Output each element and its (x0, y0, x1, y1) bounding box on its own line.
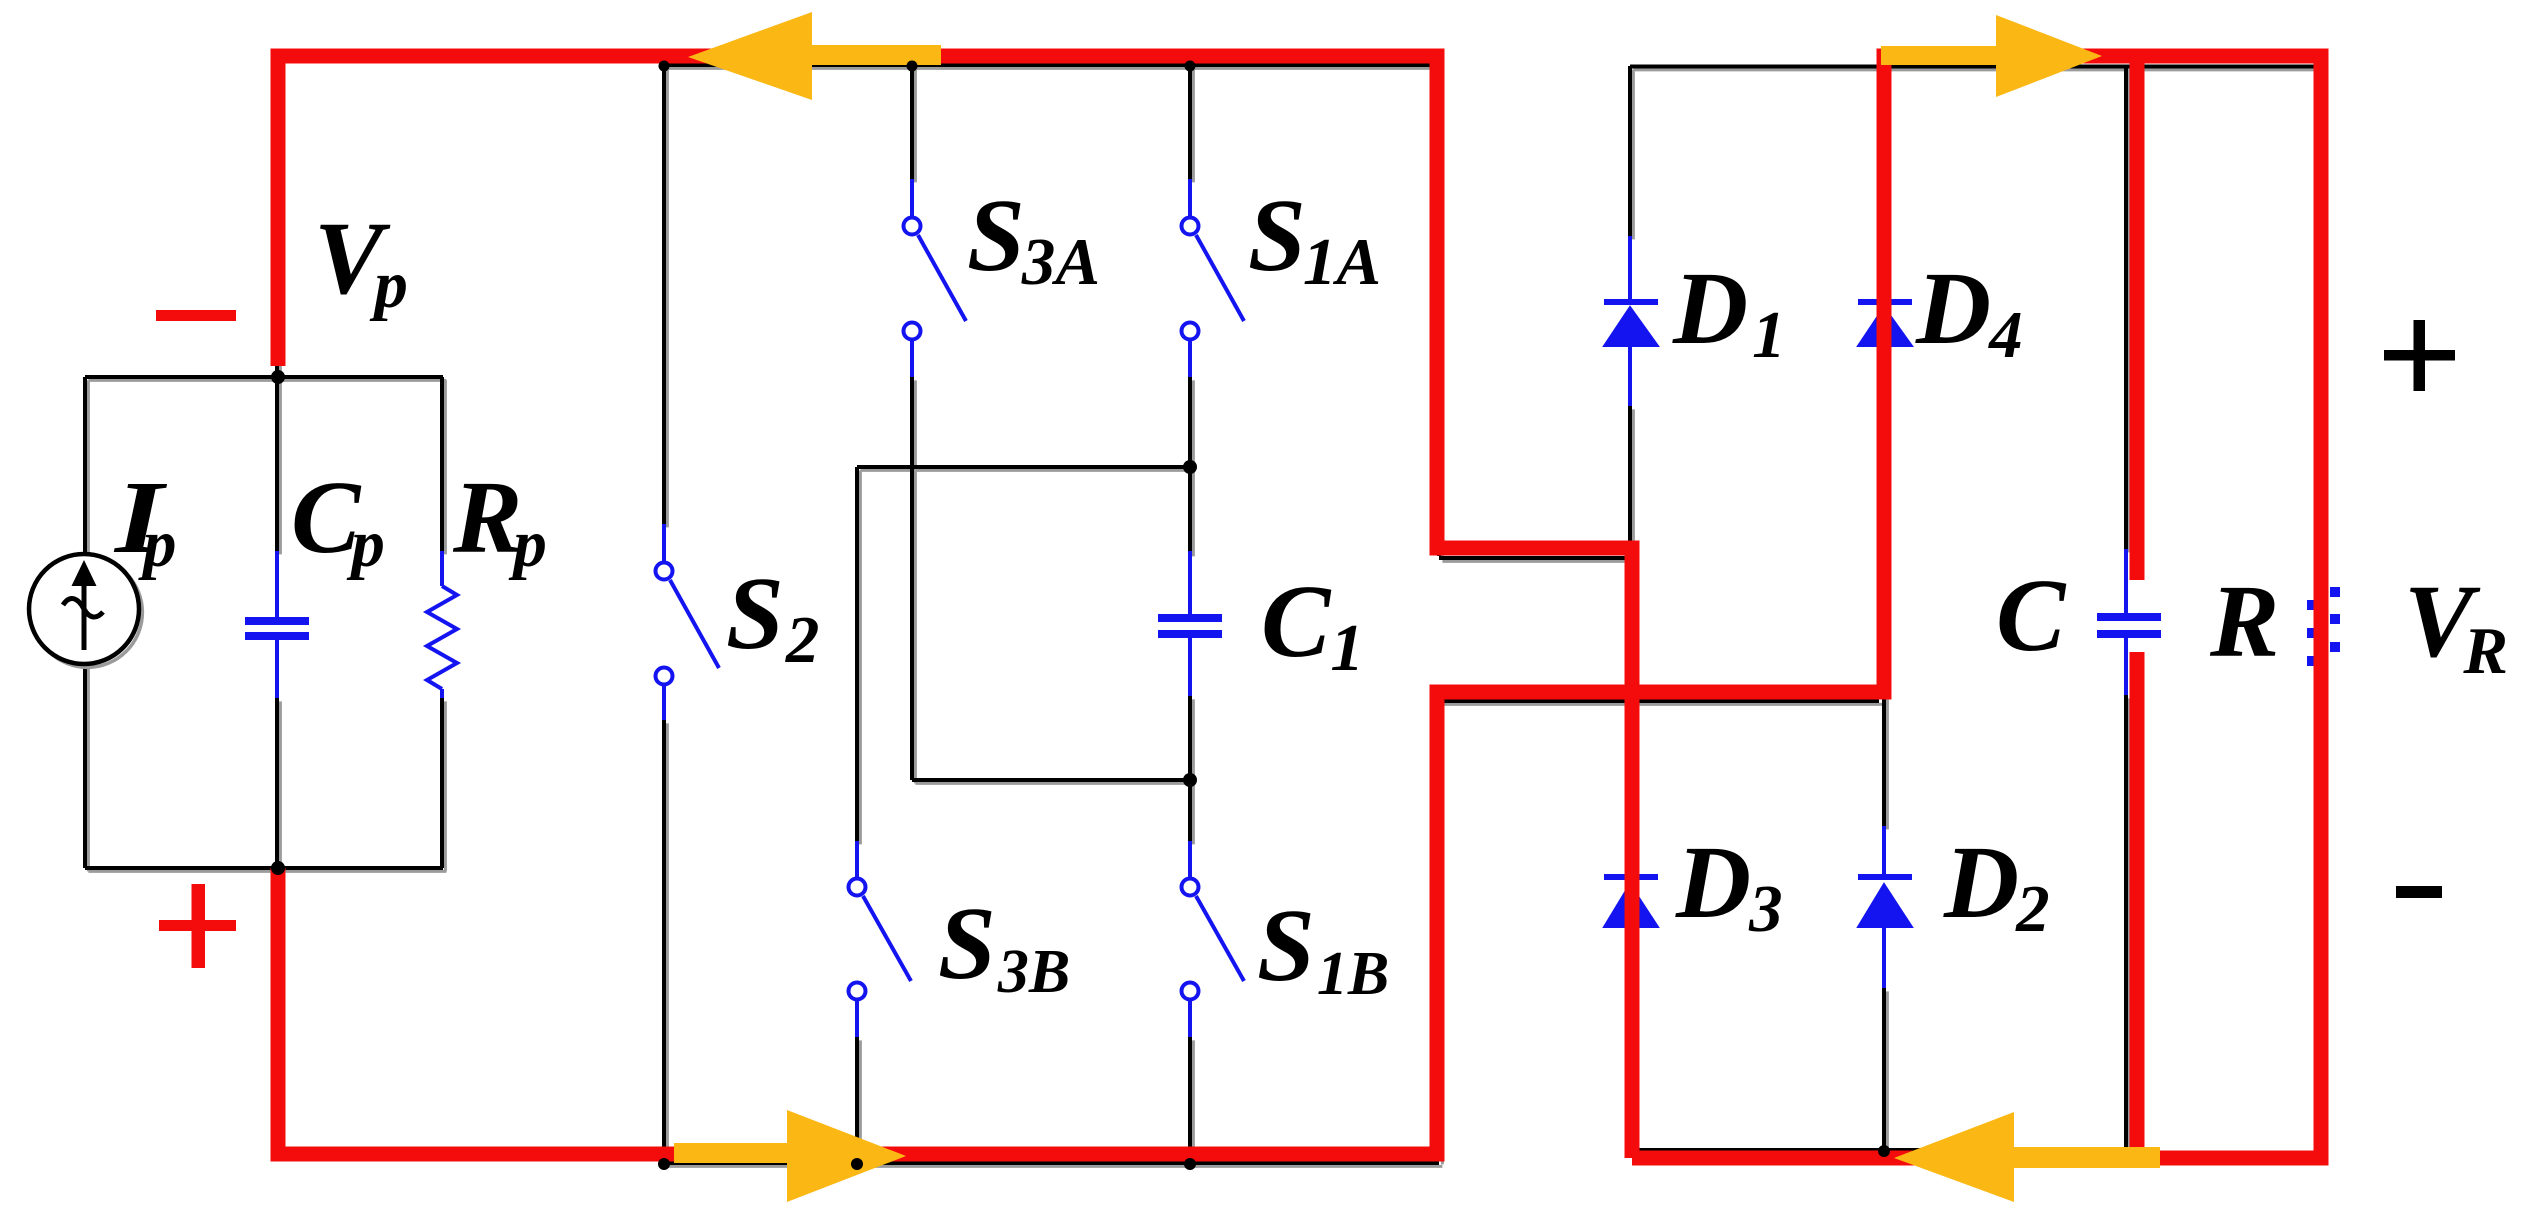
wire: S3B branch lower (855, 1037, 859, 1163)
capacitor Cp (245, 551, 309, 698)
wire: S2 branch lower (662, 720, 666, 1163)
svg-text:C: C (1996, 558, 2067, 673)
arrow: bottom-left pointing right (674, 1110, 906, 1202)
wire shadows (88, 68, 2323, 1166)
wire: bridge left leg top (1628, 66, 1632, 236)
wire: Ip branch upper (83, 377, 87, 555)
wire: left section top rail (663, 63, 1439, 67)
wire: left section right leg lower (1437, 699, 1441, 1161)
wire: left section bottom rail (663, 1161, 1439, 1165)
minus sign (red, at Vp) (156, 310, 236, 321)
wire: C1 to S1B (1188, 696, 1192, 841)
svg-text:R: R (2209, 564, 2279, 679)
wire: S2 branch upper (662, 65, 666, 524)
wire: red C branch lower (2130, 652, 2145, 1158)
node: S2 bottom (658, 1158, 670, 1170)
wire: left section right leg upper (1437, 65, 1441, 556)
node: S3B bottom (851, 1158, 863, 1170)
node: C1 top (1183, 460, 1197, 474)
wire: S3A branch upper (910, 65, 914, 179)
node: bottom-left junction (271, 861, 285, 875)
switch S1B (1182, 841, 1245, 1037)
diode D2 (1858, 826, 1912, 988)
wire: inner upper rail (857, 465, 1190, 469)
wire: S3A branch to inner lower rail (910, 377, 914, 780)
wire: Cp branch upper (275, 362, 279, 551)
switch S3A (904, 179, 967, 377)
wire: bridge right leg top (1882, 66, 1886, 236)
wire: source network top rail (85, 375, 443, 379)
node: S3A top (907, 61, 918, 72)
wire: bridge right leg middle (1882, 406, 1886, 826)
resistor R dotted (2307, 587, 2340, 666)
wire: S1A branch upper (1188, 65, 1192, 179)
wire: Rp branch upper (440, 377, 444, 551)
minus sign (black, output) (2396, 886, 2442, 898)
wire: C output branch lower (2124, 695, 2128, 1150)
arrow: top-left pointing left (688, 12, 941, 100)
wire: bridge left leg middle (1628, 406, 1632, 826)
diode D4 (1858, 236, 1912, 406)
capacitor C1 (1158, 551, 1222, 696)
wire: node A to bridge left mid (1439, 556, 1633, 560)
wire: bridge top rail (1630, 65, 2320, 69)
wire: red top-left rail (278, 56, 1632, 1158)
wire: Ip branch lower (83, 665, 87, 868)
switch S3B (849, 841, 912, 1037)
svg-text:p: p (138, 507, 177, 581)
wire: red C branch upper (2130, 60, 2145, 580)
resistor Rp (427, 551, 457, 698)
node: D2 bottom (1878, 1145, 1890, 1157)
node: S2 top (659, 61, 670, 72)
switch S2 (656, 524, 720, 720)
wire: red bottom-left rail (278, 56, 2321, 1158)
diode D3 (1604, 826, 1658, 988)
plus sign (black, output) (2384, 320, 2455, 391)
capacitor C output (2097, 549, 2161, 695)
wire: source network bottom rail (85, 866, 443, 870)
wire: Cp branch lower (275, 698, 279, 868)
node: Vp top junction (271, 370, 285, 384)
wire: node B to bridge right mid (1439, 699, 1879, 703)
node: S1B bottom (1184, 1158, 1196, 1170)
wire: bridge bottom rail (1630, 1148, 2130, 1152)
wire: bridge left leg bottom (1628, 988, 1632, 1150)
wire: S1A branch lower to C1 (1188, 377, 1192, 553)
node: C1 bottom (1183, 773, 1197, 787)
current source Ip (29, 554, 142, 667)
switch S1A (1182, 179, 1245, 377)
wire: bridge right leg bottom (1882, 988, 1886, 1150)
arrow: bottom-right pointing left (1894, 1112, 2160, 1202)
diode D1 (1604, 236, 1658, 406)
wire: C output branch upper (2124, 66, 2128, 549)
plus sign (red, lower left) (159, 884, 236, 968)
node: S1A top (1185, 61, 1196, 72)
wire: S3B branch upper (855, 467, 859, 841)
wire: S1B branch lower (1188, 1037, 1192, 1163)
wire: Rp branch lower (440, 698, 444, 868)
wire: inner lower rail (912, 778, 1190, 782)
arrow: top-right pointing right (1881, 15, 2102, 97)
